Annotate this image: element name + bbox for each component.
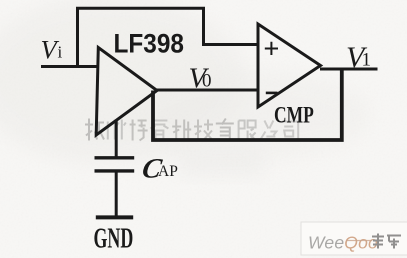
op-amp U1 LF398 (96, 48, 157, 136)
wire: capacitor to ground (115, 171, 118, 218)
wire: Vi input (41, 65, 99, 68)
label V0 (189, 63, 212, 95)
wire: to capacitor (115, 120, 118, 158)
svg-text:i: i (58, 43, 63, 62)
minus input symbol (266, 92, 278, 95)
svg-text:LF398: LF398 (114, 29, 184, 58)
capacitor C CAP (95, 156, 135, 159)
svg-text:0: 0 (202, 71, 212, 92)
svg-text:1: 1 (362, 50, 372, 71)
wire: feedback V1 down-left-up to V0 node (153, 69, 342, 140)
WeeQoo watermark box (301, 222, 407, 255)
label Vi (41, 35, 63, 65)
wire: Vi to CMP + input (top route) (78, 8, 259, 66)
svg-text:AP: AP (158, 163, 178, 180)
plus input symbol (265, 42, 278, 55)
label V1 (346, 41, 371, 74)
wire: V1 output (320, 68, 378, 71)
svg-text:WeeQoo: WeeQoo (308, 233, 378, 253)
svg-text:GND: GND (94, 224, 134, 255)
svg-text:CMP: CMP (274, 103, 314, 128)
ground bar (96, 215, 133, 219)
label CAP (140, 154, 178, 185)
wire: V0 output to CMP - input (156, 89, 258, 92)
comparator U2 CMP (258, 24, 321, 107)
watermark company text (pseudo-glyphs) (85, 119, 298, 141)
